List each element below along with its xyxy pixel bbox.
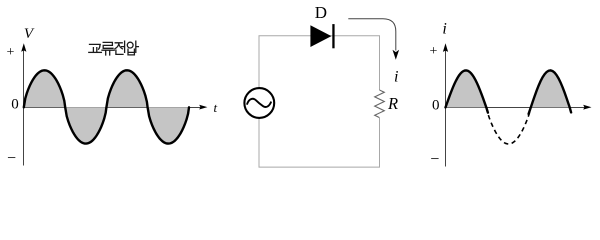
류 — [103, 42, 113, 48]
left graph V axis — [21, 43, 26, 165]
right graph i axis — [443, 43, 448, 166]
right dashed negative half — [486, 107, 531, 144]
svg-text:R: R — [387, 94, 398, 113]
left graph t axis — [24, 105, 208, 110]
left sine wave shaded — [24, 70, 189, 143]
svg-text:t: t — [213, 100, 217, 115]
svg-text:D: D — [315, 3, 327, 22]
전 — [115, 43, 122, 49]
svg-text:0: 0 — [432, 98, 440, 114]
wire left segment — [258, 36, 260, 167]
wire right lower segment — [379, 118, 381, 167]
right graph t axis — [446, 105, 592, 110]
wire top segment — [259, 35, 381, 37]
wire bottom segment — [259, 166, 381, 168]
diode D — [310, 24, 334, 48]
korean label 교류전압 — [89, 41, 139, 55]
ac source V1 — [244, 88, 274, 118]
wire right upper segment — [379, 36, 381, 90]
svg-text:i: i — [442, 21, 446, 38]
svg-text:+: + — [7, 45, 15, 60]
svg-text:i: i — [394, 68, 398, 85]
svg-text:V: V — [24, 26, 35, 42]
right hump 2 shaded — [531, 70, 570, 107]
svg-text:−: − — [430, 151, 439, 168]
압 — [127, 42, 133, 48]
right hump 1 shaded — [446, 70, 487, 107]
svg-text:0: 0 — [11, 97, 19, 113]
교 — [90, 44, 101, 49]
resistor R — [375, 90, 385, 118]
current direction arrow — [348, 19, 399, 60]
svg-text:−: − — [7, 150, 16, 167]
svg-text:+: + — [430, 44, 438, 59]
